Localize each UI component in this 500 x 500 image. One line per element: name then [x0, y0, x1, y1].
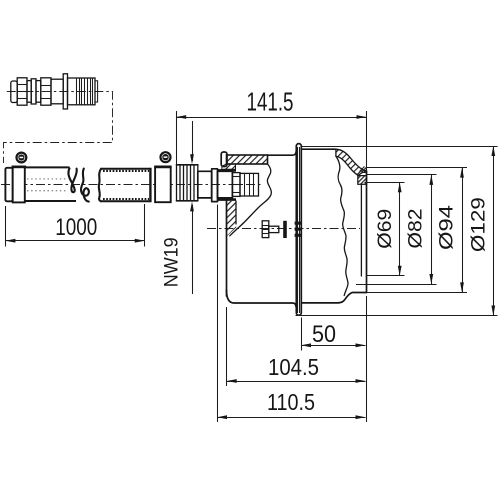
fitting ring 3: [36, 81, 41, 103]
svg-text:141.5: 141.5: [247, 89, 294, 117]
niche centerline: [207, 228, 360, 230]
niche outer line right of plate (top): [301, 148, 336, 150]
dimension NW19 (leader arrows + rotated label): [161, 121, 194, 294]
fitting barbed barrel: [68, 78, 98, 105]
niche rear wall below gland (section, hatched): [227, 201, 237, 296]
dimension 141.5 (top): [176, 89, 366, 171]
svg-text:1000: 1000: [55, 214, 97, 241]
fitting body: [51, 79, 63, 104]
svg-text:Ø129: Ø129: [469, 197, 490, 252]
gland locknut: [240, 173, 259, 196]
svg-text:50: 50: [312, 321, 336, 348]
niche rear-wall flange lip: [221, 152, 227, 167]
dimension D82: [356, 175, 437, 285]
detail view: conduit end fitting (enlarged): [4, 74, 113, 163]
hose centerline: [1, 184, 262, 186]
hose braiding dots: [103, 171, 149, 199]
fitting centerline and dash-dot leader to main view: [4, 92, 113, 164]
niche rear mouth face: [366, 171, 368, 292]
gland sleeve: [198, 171, 212, 198]
fitting ring 1: [27, 81, 31, 103]
hose clamp right: [154, 152, 171, 202]
gland washer: [212, 169, 218, 202]
wall hole edges: [218, 170, 236, 199]
dimension D69: [365, 182, 405, 276]
dimension 1000 (hose length): [5, 204, 144, 247]
niche bottom outline (right of plate): [301, 293, 366, 303]
svg-text:104.5: 104.5: [268, 354, 319, 380]
svg-text:Ø69: Ø69: [375, 209, 396, 249]
dimension 50 (plate to rear): [301, 296, 367, 422]
dimension 110.5: [217, 205, 366, 423]
dimension D94: [367, 168, 468, 293]
conduit gland at niche wall: [177, 165, 259, 202]
niche interior cast edge (right, freehand): [337, 157, 349, 296]
fitting hex nut 2: [41, 78, 51, 105]
fitting cap nut: [11, 81, 17, 103]
fitting ring 2: [31, 79, 36, 104]
niche shoulder wall (section, hatched): [336, 149, 367, 175]
niche outer line to front plate (top): [268, 151, 297, 156]
svg-text:Ø94: Ø94: [437, 204, 458, 250]
niche bottom outline (left of plate): [227, 290, 296, 306]
niche wall boss above gland hole (hatched): [222, 164, 236, 169]
main view: flexible conduit hose: [1, 152, 262, 202]
hose break symbol: [68, 168, 101, 201]
niche body: [207, 144, 367, 316]
fixing screw on plate: [262, 221, 301, 238]
hose section left: [25, 167, 76, 201]
hose section right: [101, 168, 151, 202]
hose end cap left: [5, 168, 12, 202]
fitting hex nut 1: [17, 78, 27, 105]
gland ribbed fitting NW19: [177, 165, 198, 201]
svg-text:NW19: NW19: [161, 237, 182, 287]
svg-text:Ø82: Ø82: [406, 209, 427, 249]
fitting flange washer: [63, 74, 67, 109]
niche rear-wall top flange (section, hatched): [227, 155, 268, 164]
niche rear rim ring (section, hatched): [358, 176, 367, 185]
gland body through wall: [218, 171, 233, 198]
niche interior cast edge (left, freehand): [230, 164, 272, 236]
dimension D129: [296, 146, 498, 316]
niche rear inner face: [360, 184, 362, 276]
niche shoulder band tail extra hatch: [360, 167, 367, 173]
niche front plate (flange D129): [296, 144, 301, 316]
hose clamp left: [12, 153, 27, 203]
dimension 104.5: [227, 307, 366, 386]
svg-text:110.5: 110.5: [267, 389, 315, 415]
gland hex nut: [232, 173, 240, 197]
